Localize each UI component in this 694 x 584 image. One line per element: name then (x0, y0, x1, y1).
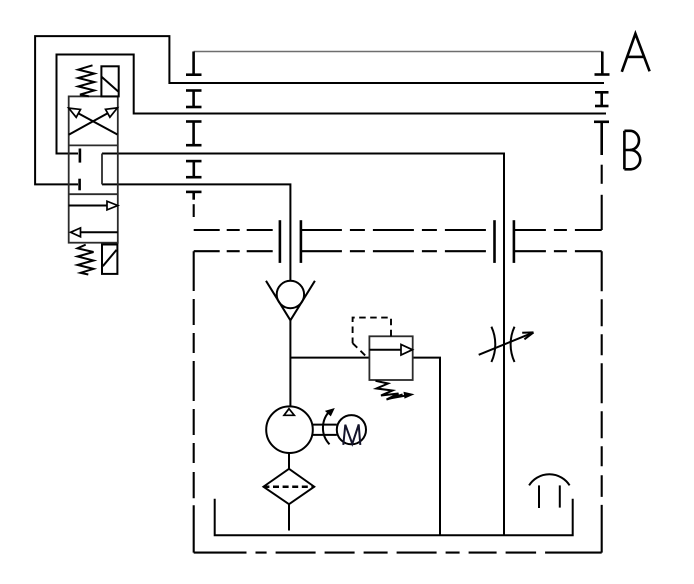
enclosure bottom edge (194, 552, 602, 554)
coupling bars throttle line (495, 220, 514, 263)
wire tee to relief valve inlet (290, 357, 369, 359)
relief valve adjust arrow (388, 392, 415, 399)
valve V1 center position U-connection (101, 154, 103, 185)
wire valve right-top port to throttle branch (102, 154, 504, 536)
valve V1 top solenoid (101, 66, 118, 96)
filter element dashed (263, 485, 314, 488)
valve V1 center position blocked port bars (78, 149, 81, 191)
coupling right port A (595, 52, 610, 75)
valve V1 body boxes (69, 96, 118, 242)
valve V1 position-3 arrows (69, 201, 118, 237)
wire inner rectangle from valve left-top port (57, 55, 607, 154)
coupling right between lines (595, 92, 609, 106)
wire filter to tank (288, 504, 290, 530)
motor letter M (343, 425, 360, 445)
tank reservoir (215, 499, 573, 536)
coupling left between P and inner lines (186, 91, 202, 108)
wire check valve to pump (289, 320, 291, 406)
drive shaft (313, 425, 337, 435)
wire valve right-bottom port to check valve (102, 184, 290, 280)
wire pump suction to filter (288, 453, 290, 469)
label B (624, 131, 640, 170)
coupling left 3 (186, 161, 202, 177)
pump P1 (266, 406, 313, 453)
enclosure top boundary upper line (194, 229, 602, 231)
breather filler cap (529, 474, 570, 508)
coupling plate left: A-line half (186, 52, 202, 75)
wire relief valve outlet to tank (413, 358, 440, 536)
relief valve spring (376, 381, 403, 400)
wire line A top (194, 51, 603, 53)
label A (622, 34, 650, 72)
enclosure top boundary lower line (194, 250, 602, 252)
enclosure right edge (601, 251, 603, 552)
throttle adjust arrow (479, 332, 534, 354)
motor M1 circle (337, 415, 366, 444)
coupling left bottom half (186, 192, 202, 200)
valve V1 bottom spring (78, 245, 94, 275)
throttle valve arcs (491, 327, 514, 362)
rotation arrow (323, 408, 335, 444)
coupling left 2 (186, 122, 202, 146)
boundary right top dashes (601, 165, 603, 230)
boundary left top dashes (193, 204, 195, 217)
coupling right port B half (594, 122, 609, 155)
check valve (266, 281, 315, 321)
valve V1 bottom solenoid (102, 245, 117, 274)
valve V1 position-1 crossed arrows (69, 108, 118, 135)
wire outer rectangle P-line from valve left-bottom port (35, 36, 604, 184)
coupling bars pump line (280, 220, 301, 263)
enclosure left edge (193, 251, 195, 552)
relief valve pilot dashed line (353, 318, 391, 357)
relief valve RV body (369, 336, 412, 380)
filter F1 diamond (263, 469, 314, 504)
pump outlet triangle (284, 409, 294, 416)
valve V1 top spring (78, 65, 94, 96)
relief valve flow arrow (369, 349, 401, 351)
